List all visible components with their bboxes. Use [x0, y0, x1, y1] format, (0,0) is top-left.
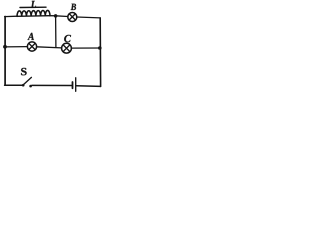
inductor core bar: [20, 6, 46, 8]
label B: [71, 4, 76, 10]
wire bottom left corner to switch: [5, 84, 22, 86]
node left edge middle: [3, 45, 7, 49]
inductor L coil: [17, 10, 50, 16]
switch S blade: [24, 77, 32, 84]
wire junction to lamp B: [56, 15, 68, 18]
node junction J1 top: [54, 14, 58, 18]
wire top left segment: [5, 15, 18, 17]
battery long plate: [75, 78, 77, 92]
switch contact left dot: [22, 84, 25, 87]
wire lamp A to lamp C: [37, 47, 62, 48]
wire right edge: [99, 18, 101, 87]
wire battery to bottom right corner: [76, 85, 100, 88]
wire coil to junction: [50, 15, 56, 17]
switch contact right dot: [29, 85, 32, 88]
lamp C: [62, 43, 72, 53]
wire left edge: [4, 17, 6, 86]
lamp A: [27, 42, 36, 51]
label C: [64, 35, 71, 42]
label A: [28, 33, 34, 40]
wire lamp B to right edge: [77, 16, 100, 19]
label L: [31, 1, 36, 8]
battery short plate: [72, 82, 74, 88]
lamp B: [68, 13, 77, 22]
wire middle left to lamp A: [5, 46, 28, 48]
node right edge middle: [98, 46, 102, 50]
wire lamp C to right edge: [71, 47, 100, 49]
wire junction vertical: [55, 16, 57, 48]
label S: [21, 68, 27, 75]
wire switch to battery: [32, 84, 72, 86]
